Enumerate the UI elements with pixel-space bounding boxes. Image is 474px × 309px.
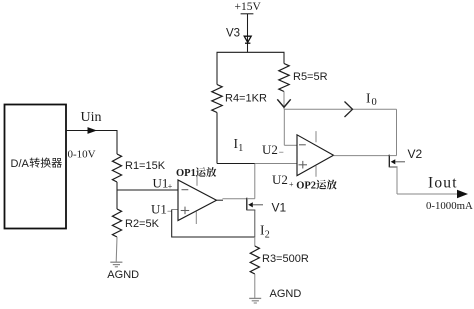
OP2 power pin top bbox=[315, 131, 317, 142]
resistor R2 bbox=[112, 209, 121, 237]
wire U1- input stub bbox=[172, 209, 178, 211]
svg-text:U1: U1 bbox=[153, 176, 169, 191]
svg-text:D/A: D/A bbox=[11, 158, 30, 170]
wire rail down to R4 bbox=[216, 52, 218, 84]
wire top rail bbox=[217, 51, 285, 53]
wire rail down to R5 bbox=[283, 52, 285, 63]
arrow I0 direction bbox=[345, 102, 353, 118]
svg-text:AGND: AGND bbox=[107, 269, 139, 281]
wire I0 to V2 drain bbox=[284, 108, 397, 110]
svg-text:Iout: Iout bbox=[428, 174, 458, 191]
wire feedback from U1- down and right to node I2 bbox=[172, 210, 255, 238]
label U1+ bbox=[153, 176, 173, 192]
svg-text:Uin: Uin bbox=[81, 110, 102, 125]
wire R1 bottom to node U1+ bbox=[116, 182, 118, 190]
+15V supply bar bbox=[241, 13, 254, 15]
wire V1 drain up to node I1 bbox=[254, 164, 256, 199]
wire R2 to ground bbox=[115, 237, 118, 262]
label U1- bbox=[151, 202, 172, 217]
wire V1 source down to node I2 bbox=[254, 210, 256, 237]
label U2- bbox=[262, 142, 284, 157]
svg-text:R3=500R: R3=500R bbox=[262, 253, 309, 265]
wire OP2 output to V2 gate bbox=[334, 155, 390, 157]
svg-text:V2: V2 bbox=[408, 147, 423, 161]
diode V3 bbox=[244, 36, 251, 43]
wire V2 drain up to I0 line bbox=[396, 109, 398, 155]
svg-text:AGND: AGND bbox=[270, 288, 302, 300]
svg-text:−: − bbox=[279, 147, 284, 157]
wire V2 source down to Iout bbox=[396, 167, 398, 194]
resistor R3 bbox=[250, 246, 259, 274]
svg-text:0: 0 bbox=[372, 97, 377, 108]
wire R5 to node I0 bbox=[283, 92, 285, 110]
wire node I0 down to OP2 inverting input bbox=[283, 109, 285, 145]
svg-text:I: I bbox=[366, 90, 371, 105]
label I0 bbox=[366, 90, 377, 108]
svg-text:V1: V1 bbox=[272, 201, 287, 215]
svg-text:V3: V3 bbox=[226, 28, 240, 40]
wire Iout bbox=[397, 193, 459, 195]
op-amp OP1 bbox=[178, 180, 217, 221]
svg-text:0-1000mA: 0-1000mA bbox=[426, 200, 473, 212]
wire node I1 to OP2 non-inverting input bbox=[255, 163, 297, 165]
OP1 inverting input mark bbox=[182, 189, 189, 191]
svg-text:OP2: OP2 bbox=[296, 181, 316, 192]
arrow Iout bbox=[457, 190, 468, 199]
resistor R4 bbox=[212, 85, 222, 113]
svg-text:2: 2 bbox=[265, 230, 270, 241]
label OP1运放 bbox=[176, 167, 216, 179]
resistor R1 bbox=[112, 154, 121, 182]
label I2 bbox=[260, 223, 270, 241]
resistor R5 bbox=[279, 64, 289, 92]
wire OP1 output to V1 gate bbox=[217, 199, 247, 201]
OP1 power pin bottom bbox=[195, 212, 197, 225]
OP2 power pin bottom bbox=[315, 166, 317, 177]
wire node I2 to R3 bbox=[254, 237, 256, 246]
svg-text:R1=15K: R1=15K bbox=[125, 160, 166, 172]
label U2+ bbox=[272, 172, 294, 189]
wire Uin from D/A converter to R1 bbox=[66, 131, 117, 155]
svg-text:+: + bbox=[168, 182, 173, 191]
svg-text:1: 1 bbox=[238, 143, 243, 154]
wire R3 to ground bbox=[254, 274, 256, 298]
wire U1+ input bbox=[117, 189, 178, 191]
ground AGND under R3 bbox=[249, 298, 261, 303]
svg-text:R5=5R: R5=5R bbox=[293, 71, 328, 83]
wire node to R2 bbox=[116, 190, 118, 209]
svg-text:0-10V: 0-10V bbox=[68, 149, 96, 161]
wire OP2 inverting input stub bbox=[284, 144, 297, 146]
OP1 non-inverting input mark bbox=[181, 207, 190, 215]
label D/A转换器 bbox=[11, 158, 62, 170]
svg-text:OP1: OP1 bbox=[176, 168, 196, 179]
svg-text:R4=1KR: R4=1KR bbox=[225, 93, 267, 105]
svg-text:+: + bbox=[289, 180, 294, 189]
wire +15V rail vertical bbox=[247, 14, 249, 53]
label OP2运放 bbox=[296, 180, 337, 192]
wire R4 to node I1 bbox=[216, 113, 218, 164]
svg-text:U2: U2 bbox=[262, 142, 278, 157]
D/A converter box bbox=[5, 105, 67, 229]
op-amp OP2 bbox=[297, 135, 334, 176]
label I1 bbox=[234, 136, 244, 154]
svg-text:+15V: +15V bbox=[235, 1, 262, 13]
svg-text:U1: U1 bbox=[151, 202, 167, 217]
svg-text:U2: U2 bbox=[272, 172, 288, 187]
transistor V1 bbox=[247, 198, 263, 211]
ground AGND under R2 bbox=[110, 262, 122, 267]
arrow Uin direction bbox=[88, 127, 98, 134]
wire node I1 from R4 to V1 drain bbox=[217, 163, 255, 165]
OP1 power pin top bbox=[196, 175, 198, 185]
OP2 inverting input mark bbox=[299, 144, 306, 146]
transistor V2 bbox=[389, 155, 405, 168]
svg-text:R2=5K: R2=5K bbox=[125, 218, 160, 230]
arrow current direction below R5 bbox=[277, 99, 290, 107]
OP2 non-inverting input mark bbox=[299, 161, 308, 169]
